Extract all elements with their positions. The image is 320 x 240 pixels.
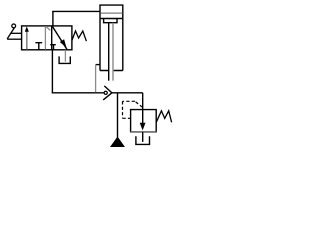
cylinder C1 drain line (gray) xyxy=(95,65,97,93)
cylinder C1 piston bottom xyxy=(101,18,123,20)
wire A-port horizontal to cylinder xyxy=(52,10,100,12)
cylinder C1 bottom port stub xyxy=(96,64,101,66)
wire P-port vertical xyxy=(51,50,53,93)
valve V1 lever bracket lower xyxy=(7,38,22,40)
valve V1 exhaust pipe (gray) xyxy=(64,50,66,62)
relief valve RV1 pilot dashed left xyxy=(122,101,124,118)
relief valve RV1 pilot dashed top xyxy=(123,100,135,102)
cylinder C1 piston top (gray) xyxy=(101,12,123,14)
wire branch down to source xyxy=(117,93,119,138)
valve V1 spring (right) xyxy=(72,31,87,41)
valve V1 up arrow head xyxy=(25,26,29,31)
pressure source triangle xyxy=(111,137,124,146)
tank T2 under relief valve xyxy=(136,136,150,144)
check valve seat xyxy=(103,86,112,100)
check valve ball xyxy=(104,91,107,94)
valve V1 blocked port T1 xyxy=(35,43,42,50)
valve V1 body outline xyxy=(22,26,72,50)
relief valve RV1 pilot dashed entry xyxy=(123,117,131,119)
wire A-port vertical xyxy=(52,11,54,26)
valve V1 blocked port T2 xyxy=(50,45,56,50)
tank T1 under valve exhaust xyxy=(59,56,70,63)
valve V1 up arrow stem (gray) xyxy=(26,31,28,50)
valve V1 lever bracket upper xyxy=(11,32,22,34)
relief valve RV1 arrow xyxy=(142,110,144,124)
valve V1 lever circle xyxy=(12,24,16,28)
valve V1 ghost gray diagonal xyxy=(46,26,50,30)
valve V1 divider xyxy=(51,26,53,50)
relief valve RV1 drain pipe xyxy=(142,132,144,142)
wire main horizontal right of check valve xyxy=(112,92,143,94)
relief valve RV1 pilot dashed diagonal xyxy=(135,101,143,107)
valve V1 diagonal arrow xyxy=(52,26,67,50)
valve V1 ghost gray vertical xyxy=(44,26,46,49)
cylinder C1 body xyxy=(100,5,123,70)
wire down into relief valve xyxy=(142,93,144,110)
relief valve RV1 spring xyxy=(156,111,171,123)
cylinder C1 rod left (black) xyxy=(108,23,110,81)
relief valve RV1 body bottom edge xyxy=(130,131,157,133)
valve V1 lever arm xyxy=(7,27,14,39)
cylinder C1 collar xyxy=(104,19,117,23)
relief valve RV1 body xyxy=(131,110,157,132)
wire main horizontal left of check valve xyxy=(52,92,104,94)
cylinder C1 rod right (gray) xyxy=(112,23,114,81)
